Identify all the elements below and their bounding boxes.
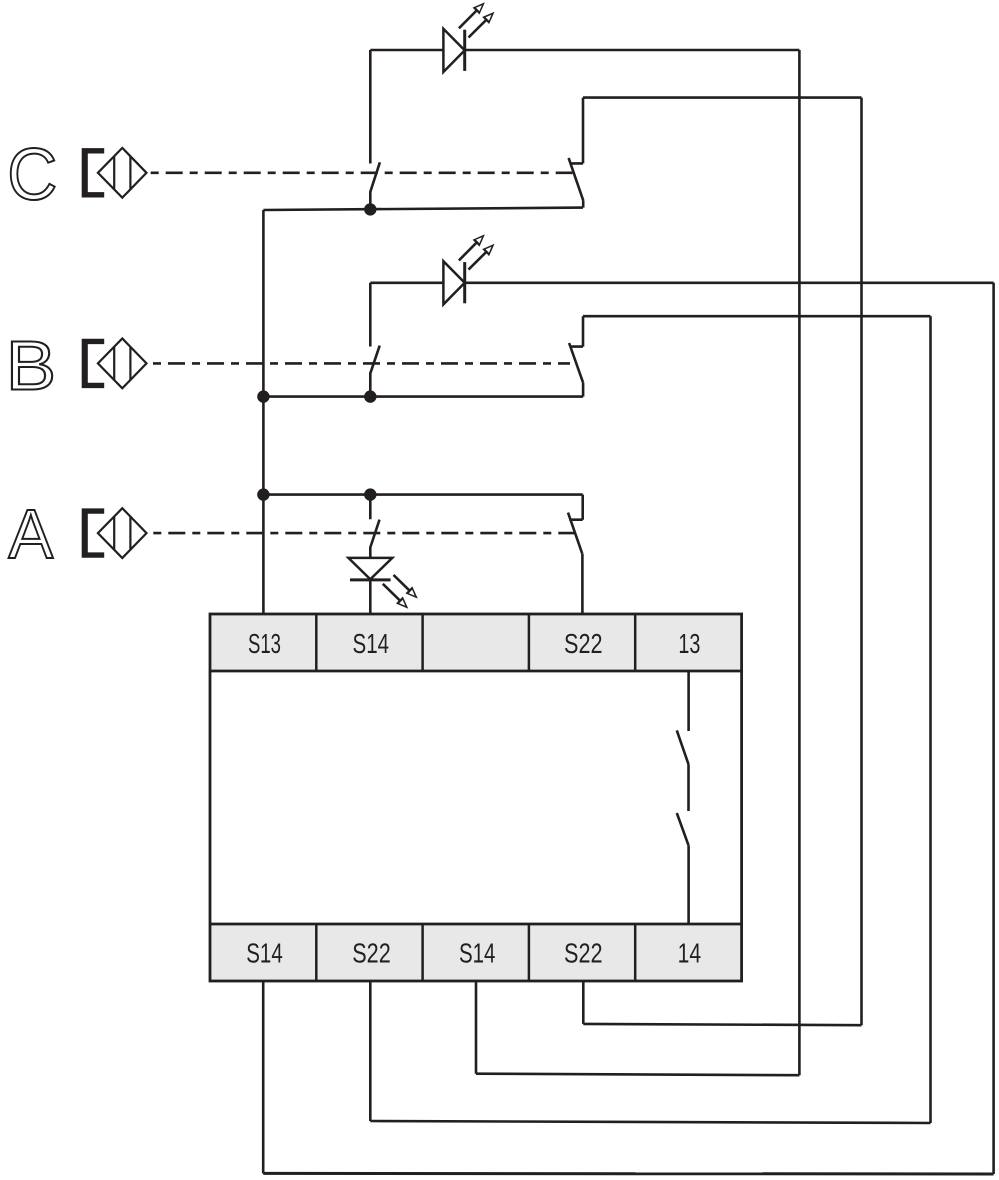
sensor B bracket — [82, 339, 105, 388]
sensor A bracket — [82, 508, 105, 557]
LED LED3 (pointing down) — [348, 558, 417, 609]
svg-text:B: B — [6, 327, 56, 405]
wire NC C to right rail — [583, 96, 862, 99]
NC contact row C (x=583) — [569, 98, 584, 208]
node row B junction dot mid — [364, 390, 376, 402]
LED LED1 — [443, 2, 494, 72]
switch contact row C (NO, x=370) — [370, 162, 380, 203]
wire LED3 to S14 top — [369, 580, 372, 614]
terminal strip bottom fill — [210, 924, 742, 981]
svg-text:A: A — [8, 495, 53, 574]
svg-text:S22: S22 — [352, 938, 391, 969]
svg-text:C: C — [7, 135, 57, 216]
wire LED2 left drop to switch B — [369, 283, 372, 347]
wire right rail x861 — [860, 98, 863, 1026]
wire bottom run S14#3 to x799 — [476, 1074, 799, 1076]
beam B (dashed light beam) — [153, 362, 570, 365]
svg-text:S14: S14 — [246, 938, 283, 969]
terminal dividers bottom — [316, 924, 635, 981]
switch contact row A (NO, x=370) — [370, 495, 379, 558]
svg-text:S13: S13 — [248, 628, 281, 659]
terminal dividers top — [316, 614, 635, 671]
sensor A reflector diamond — [98, 508, 147, 558]
sensor B reflector diamond — [98, 339, 147, 389]
wire LED1 left drop to switch C — [369, 50, 372, 164]
terminal strip top fill — [210, 614, 742, 671]
node row C junction dot — [364, 203, 376, 215]
internal contact 13-14 — [677, 671, 689, 924]
sensor C bracket — [82, 148, 105, 197]
wire row C junction line — [263, 208, 583, 210]
wire bottom riser S14#1 — [262, 981, 265, 1173]
terminal strip bottom upper edge — [210, 923, 742, 926]
wire right rail x993 — [992, 283, 995, 1174]
wire left riser S13 — [262, 210, 265, 614]
wire NC B to right rail — [583, 315, 931, 318]
beam C (dashed light beam) — [151, 172, 573, 175]
svg-text:13: 13 — [678, 628, 700, 659]
wire row B junction line — [263, 395, 583, 398]
wire row A junction line — [263, 493, 582, 496]
NC contact row A (x=583) — [568, 495, 583, 614]
svg-text:S22: S22 — [564, 628, 603, 659]
terminal strip top lower edge — [210, 670, 742, 673]
svg-text:14: 14 — [678, 938, 702, 969]
svg-text:S22: S22 — [564, 938, 603, 969]
beam A (dashed light beam) — [153, 532, 574, 535]
wire bottom riser S14#3 — [475, 981, 478, 1074]
switch contact row B (NO, x=370) — [370, 346, 379, 391]
svg-text:S14: S14 — [353, 628, 390, 659]
node row A junction dot left — [257, 488, 269, 500]
wire LED2 rail — [370, 281, 993, 284]
wire bottom run S14#1 to x993 — [263, 1172, 993, 1176]
wire bottom riser S22#2 — [369, 981, 372, 1121]
wire LED1 top rail — [370, 49, 799, 52]
wire right rail x931 — [929, 316, 932, 1123]
wire right rail x799 — [798, 50, 801, 1075]
wire bottom run S22#2 to x931 — [370, 1121, 930, 1123]
node row A junction dot mid — [364, 488, 376, 500]
NC contact row B (x=583) — [569, 316, 583, 396]
wire bottom riser S22#4 — [582, 981, 585, 1024]
node row B junction dot left — [257, 390, 269, 402]
relay box outline — [210, 614, 742, 981]
svg-text:S14: S14 — [459, 938, 496, 969]
LED LED2 — [443, 234, 494, 304]
sensor C reflector diamond — [98, 148, 147, 198]
wire bottom run S22#4 to x861 — [583, 1024, 861, 1025]
